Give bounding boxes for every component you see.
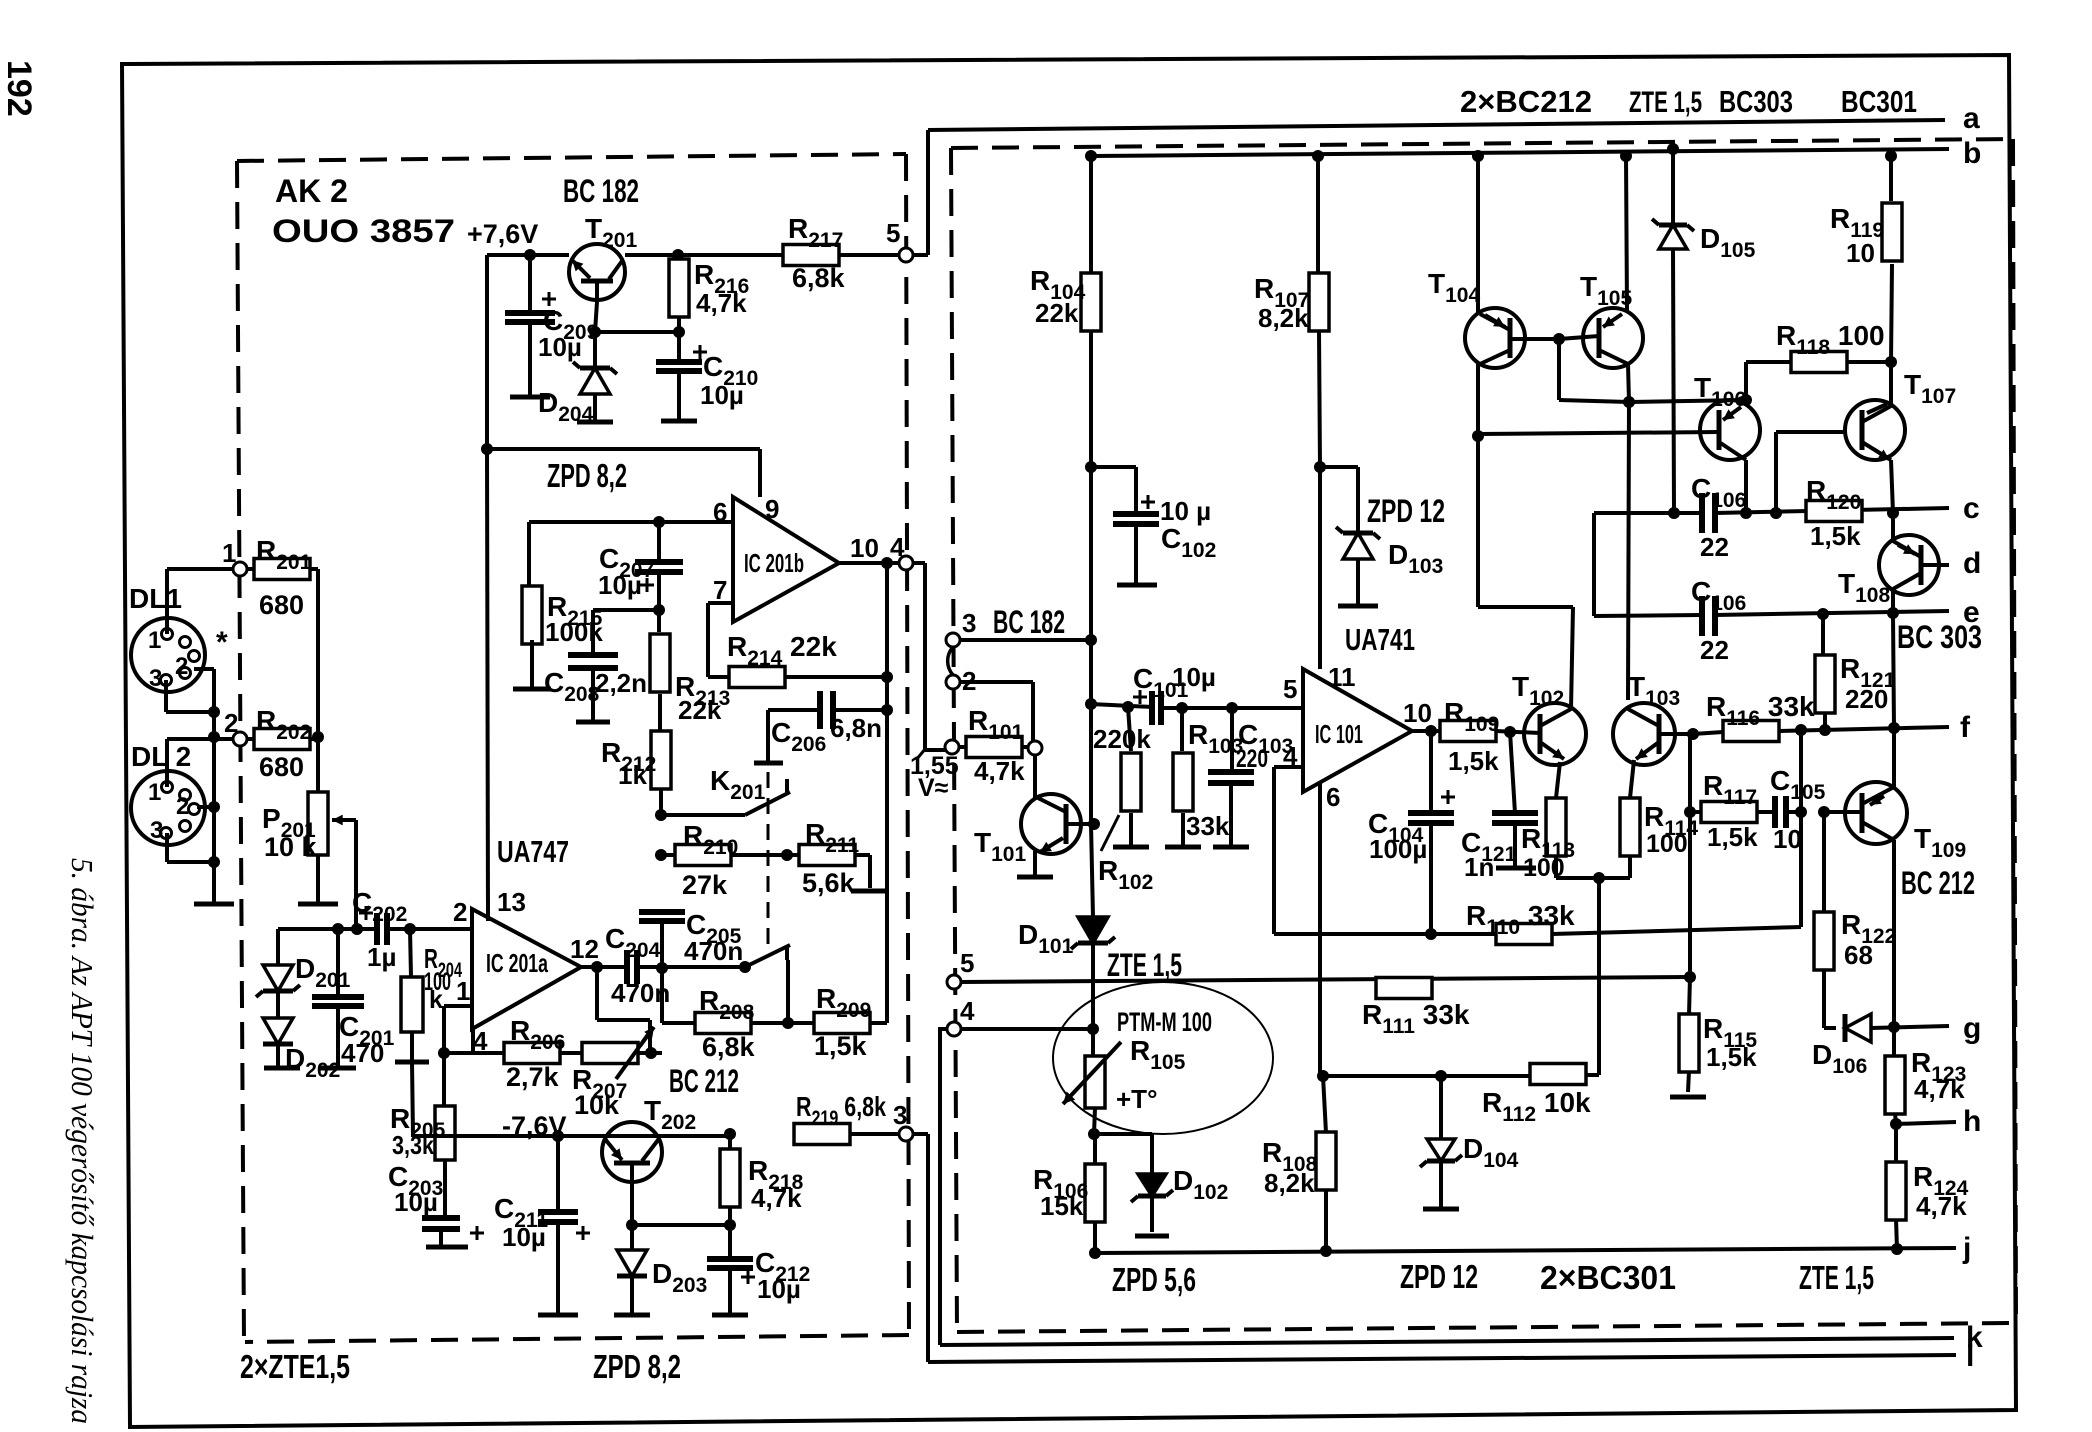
svg-text:1k: 1k	[618, 760, 647, 790]
svg-text:1: 1	[222, 538, 236, 568]
svg-text:5: 5	[960, 948, 974, 978]
svg-text:ZTE 1,5: ZTE 1,5	[1799, 1259, 1874, 1296]
svg-text:10µ: 10µ	[538, 332, 582, 362]
svg-text:100µ: 100µ	[1369, 834, 1427, 864]
svg-text:2: 2	[176, 793, 189, 820]
svg-text:1: 1	[148, 627, 161, 654]
svg-text:BC303: BC303	[1719, 84, 1793, 119]
svg-text:10: 10	[1403, 698, 1432, 728]
svg-text:4: 4	[960, 996, 975, 1026]
svg-text:ZTE 1,5: ZTE 1,5	[1629, 86, 1702, 119]
svg-text:3: 3	[150, 817, 163, 844]
svg-text:10µ: 10µ	[502, 1222, 546, 1252]
svg-text:680: 680	[259, 752, 304, 782]
svg-text:h: h	[1963, 1105, 1981, 1138]
svg-text:1,5k: 1,5k	[1706, 1042, 1757, 1072]
svg-text:2×BC212: 2×BC212	[1460, 84, 1592, 119]
svg-text:22: 22	[1700, 635, 1729, 665]
svg-text:g: g	[1963, 1012, 1981, 1045]
svg-text:OUO 3857: OUO 3857	[272, 213, 455, 249]
svg-text:c: c	[1963, 492, 1980, 525]
svg-text:ZPD 8,2: ZPD 8,2	[593, 1348, 681, 1385]
svg-text:1n: 1n	[1464, 852, 1494, 882]
svg-text:220k: 220k	[1093, 724, 1151, 754]
svg-text:l: l	[1966, 1340, 1974, 1373]
svg-text:680: 680	[259, 590, 304, 620]
svg-text:V≈: V≈	[918, 774, 949, 802]
svg-text:+T°: +T°	[1116, 1084, 1157, 1114]
svg-text:1µ: 1µ	[367, 942, 396, 972]
svg-text:192: 192	[0, 60, 38, 117]
svg-text:10µ: 10µ	[1172, 662, 1216, 692]
svg-text:1,5k: 1,5k	[1810, 521, 1861, 551]
svg-text:11: 11	[1328, 662, 1356, 692]
svg-text:+7,6V: +7,6V	[467, 219, 538, 249]
svg-text:5: 5	[1283, 674, 1297, 704]
svg-text:2×ZTE1,5: 2×ZTE1,5	[240, 1348, 350, 1385]
svg-text:10: 10	[850, 533, 879, 563]
svg-text:220: 220	[1236, 745, 1268, 773]
svg-text:4,7k: 4,7k	[1916, 1191, 1967, 1221]
svg-text:470n: 470n	[684, 936, 743, 966]
svg-text:1,5k: 1,5k	[1707, 822, 1758, 852]
svg-text:j: j	[1962, 1232, 1971, 1265]
svg-text:6,8k: 6,8k	[702, 1032, 756, 1062]
svg-text:10k: 10k	[574, 1090, 620, 1120]
svg-text:8,2k: 8,2k	[1264, 1168, 1315, 1198]
svg-text:d: d	[1963, 547, 1981, 580]
svg-text:2: 2	[175, 653, 188, 680]
svg-text:5: 5	[886, 218, 900, 248]
svg-text:22k: 22k	[678, 695, 722, 725]
svg-text:27k: 27k	[682, 870, 728, 900]
svg-text:7: 7	[713, 575, 727, 605]
svg-text:5. ábra. Az APT 100 végerősítő: 5. ábra. Az APT 100 végerősítő kapcsolás…	[65, 858, 100, 1424]
svg-text:IC 101: IC 101	[1315, 719, 1363, 749]
svg-text:IC 201a: IC 201a	[486, 948, 548, 978]
svg-text:1,5k: 1,5k	[814, 1031, 868, 1061]
svg-text:10µ: 10µ	[394, 1187, 438, 1217]
svg-text:ZTE 1,5: ZTE 1,5	[1107, 947, 1182, 983]
svg-text:AK 2: AK 2	[275, 173, 348, 209]
svg-text:BC 212: BC 212	[669, 1063, 739, 1099]
svg-text:UA747: UA747	[497, 834, 569, 869]
svg-text:10: 10	[1846, 238, 1875, 268]
svg-text:1: 1	[148, 779, 161, 806]
svg-text:3: 3	[962, 608, 976, 638]
svg-text:2,2n: 2,2n	[595, 668, 647, 698]
svg-text:33k: 33k	[1186, 811, 1230, 841]
svg-text:10: 10	[1773, 824, 1802, 854]
svg-text:k: k	[429, 986, 443, 1014]
svg-text:2: 2	[224, 708, 238, 738]
svg-text:DL 2: DL 2	[131, 741, 191, 772]
svg-text:4,7k: 4,7k	[1914, 1074, 1965, 1104]
svg-text:4,7k: 4,7k	[751, 1183, 802, 1213]
svg-text:15k: 15k	[1040, 1191, 1084, 1221]
svg-text:BC 212: BC 212	[1901, 865, 1975, 901]
svg-text:ZPD 8,2: ZPD 8,2	[547, 457, 627, 494]
svg-text:6: 6	[1326, 782, 1340, 812]
svg-text:100: 100	[1646, 830, 1688, 858]
svg-text:8,2k: 8,2k	[1258, 303, 1309, 333]
svg-text:BC301: BC301	[1841, 84, 1917, 119]
svg-text:b: b	[1963, 137, 1981, 170]
svg-text:4,7k: 4,7k	[974, 756, 1025, 786]
svg-text:220: 220	[1845, 684, 1888, 714]
svg-text:2: 2	[453, 897, 467, 927]
svg-text:6,8n: 6,8n	[830, 713, 882, 743]
svg-text:5,6k: 5,6k	[802, 868, 856, 898]
svg-text:6,8k: 6,8k	[792, 263, 846, 293]
svg-text:BC 303: BC 303	[1897, 619, 1982, 655]
svg-text:10 k: 10 k	[264, 832, 318, 862]
svg-text:PTM-M 100: PTM-M 100	[1117, 1007, 1212, 1037]
svg-text:4,7k: 4,7k	[696, 288, 747, 318]
svg-text:10µ: 10µ	[598, 570, 642, 600]
svg-text:UA741: UA741	[1345, 622, 1415, 657]
svg-text:ZPD 12: ZPD 12	[1367, 493, 1445, 529]
svg-text:2,7k: 2,7k	[506, 1062, 560, 1092]
svg-text:13: 13	[497, 887, 526, 917]
svg-text:10µ: 10µ	[757, 1274, 801, 1304]
svg-text:f: f	[1960, 711, 1971, 744]
svg-text:ZPD 12: ZPD 12	[1400, 1258, 1478, 1295]
svg-text:BC 182: BC 182	[563, 173, 639, 209]
svg-text:68: 68	[1844, 940, 1873, 970]
svg-text:IC 201b: IC 201b	[744, 548, 804, 578]
svg-text:DL1: DL1	[129, 583, 182, 614]
svg-text:3: 3	[149, 665, 162, 692]
svg-text:1,5k: 1,5k	[1448, 746, 1499, 776]
svg-text:ZPD 5,6: ZPD 5,6	[1112, 1261, 1196, 1298]
svg-text:1: 1	[456, 976, 470, 1006]
svg-text:12: 12	[570, 934, 599, 964]
svg-text:BC 182: BC 182	[993, 604, 1065, 640]
svg-text:22k: 22k	[1035, 298, 1079, 328]
svg-text:a: a	[1963, 102, 1980, 135]
svg-text:10µ: 10µ	[700, 380, 744, 410]
svg-text:10 µ: 10 µ	[1160, 496, 1211, 526]
svg-text:470: 470	[341, 1038, 384, 1068]
svg-text:2×BC301: 2×BC301	[1540, 1259, 1676, 1296]
svg-text:22: 22	[1700, 532, 1729, 562]
svg-text:3: 3	[893, 1100, 907, 1130]
svg-text:4: 4	[890, 532, 905, 562]
svg-text:*: *	[216, 626, 228, 659]
